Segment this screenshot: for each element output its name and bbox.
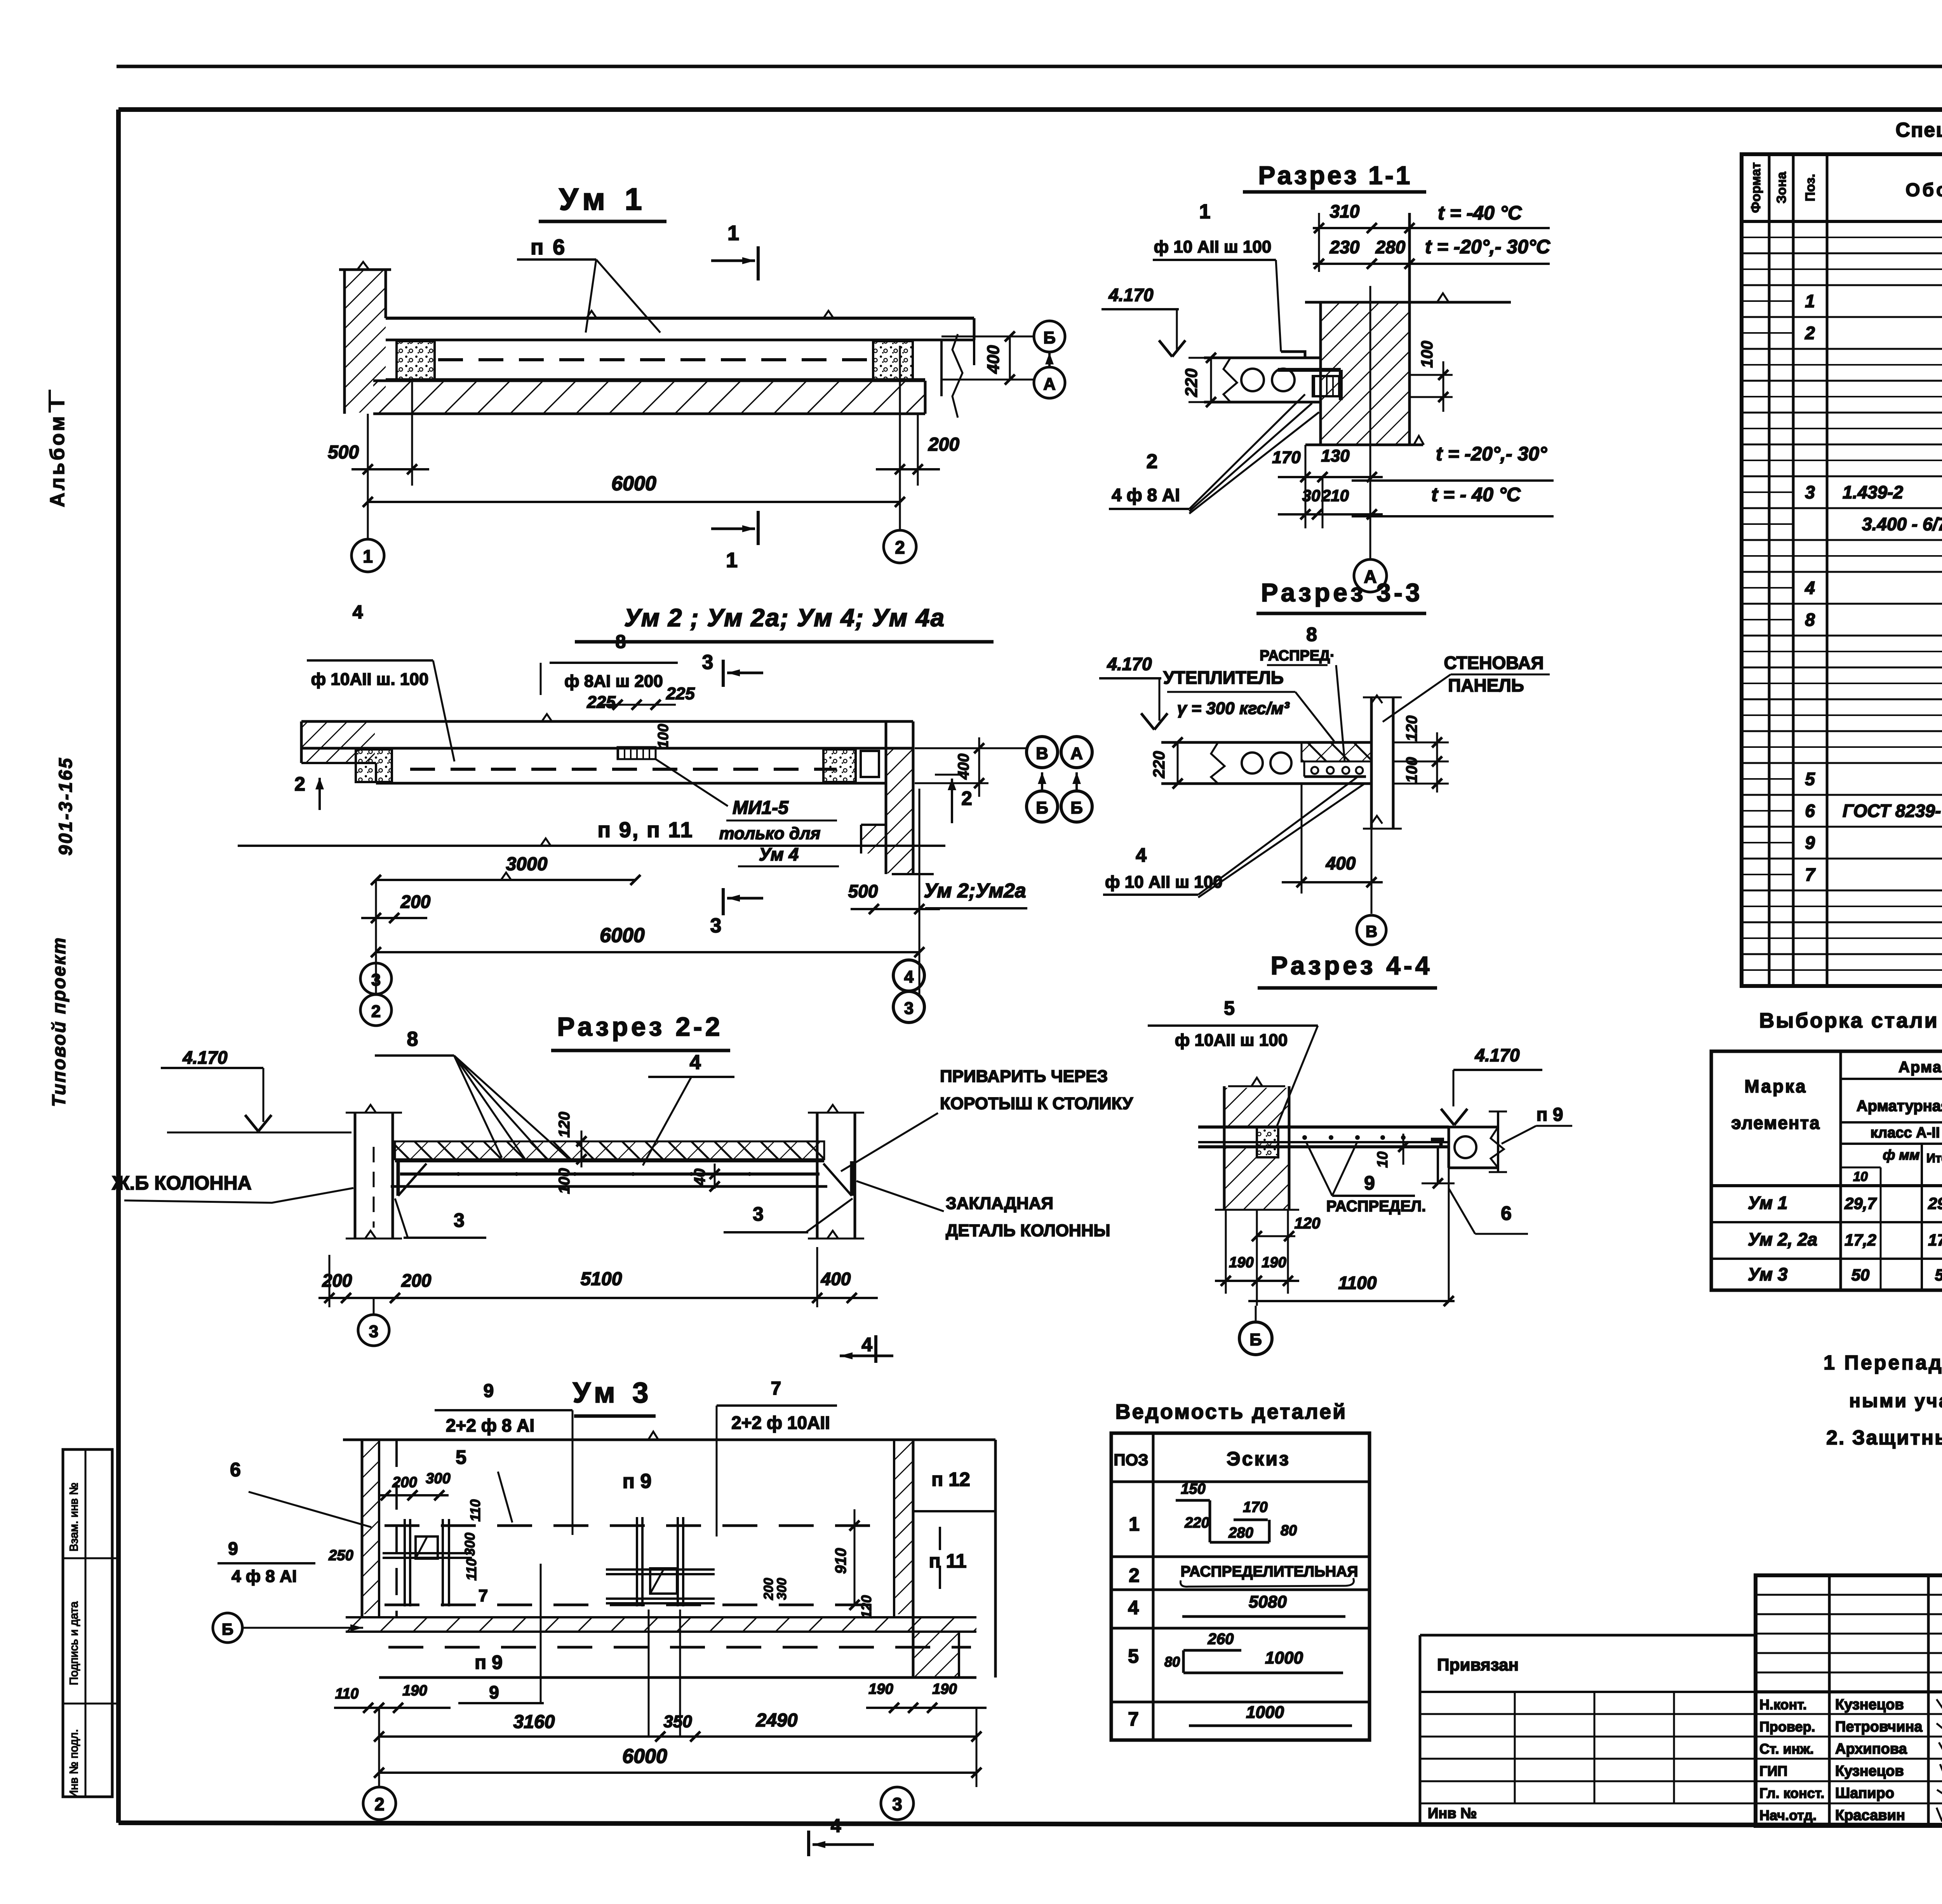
- Ум3 rebar cage middle: [606, 1517, 715, 1606]
- Разрез4-4 small bracket at slab end: [1431, 1139, 1444, 1147]
- Разрез3-3 panel axis and node circle В: [1357, 784, 1386, 945]
- Выборка header texts: [1731, 1059, 1942, 1184]
- svg-text:110: 110: [335, 1686, 359, 1702]
- svg-text:400: 400: [821, 1269, 851, 1289]
- Разрез4-4 level mark 4.170: [1441, 1045, 1542, 1125]
- svg-text:1100: 1100: [1338, 1273, 1377, 1293]
- svg-text:250: 250: [328, 1547, 353, 1564]
- svg-text:220: 220: [1182, 368, 1201, 397]
- Разрез3-3 label УТЕПЛИТЕЛЬ γ=300: [1163, 667, 1334, 741]
- Ум2 right wall and column (hatched): [861, 721, 934, 874]
- Разрез1-1 bottom dims 170 130: [1272, 446, 1383, 482]
- svg-text:Разрез 2-2: Разрез 2-2: [557, 1012, 723, 1042]
- Разрез2-2 label 4 with leader: [643, 1051, 734, 1165]
- svg-text:t = -20°,- 30°: t = -20°,- 30°: [1436, 443, 1547, 465]
- svg-text:5: 5: [1805, 769, 1815, 789]
- svg-text:4: 4: [1128, 1597, 1139, 1618]
- title block signature rows: [1756, 1697, 1942, 1824]
- svg-text:В: В: [1036, 744, 1048, 763]
- svg-text:190: 190: [1262, 1254, 1286, 1271]
- Ум1 dimension 500: [328, 380, 429, 486]
- Разрез2-2 label 3 left: [395, 1198, 486, 1238]
- svg-text:п 9: п 9: [475, 1651, 503, 1673]
- svg-text:110: 110: [463, 1558, 479, 1580]
- svg-text:п 12: п 12: [931, 1469, 970, 1490]
- Разрез3-3 dim 400: [1282, 784, 1383, 894]
- Ум3 label 5 with leader: [456, 1446, 512, 1523]
- Ум3 dims 110 190 bottom-left: [334, 1683, 451, 1713]
- svg-text:Ум 1: Ум 1: [1748, 1193, 1787, 1213]
- title block outer box: [1756, 1575, 1942, 1826]
- svg-text:901-3-165: 901-3-165: [56, 757, 76, 856]
- Разрез2-2 insulation band (cross hatch): [395, 1141, 824, 1159]
- Разрез4-4 label 9 распредел with V leaders: [1306, 1141, 1426, 1215]
- svg-text:1000: 1000: [1246, 1703, 1284, 1722]
- Ум3 axis circle 3: [881, 1787, 914, 1820]
- svg-text:Ум 1: Ум 1: [559, 182, 647, 216]
- svg-text:1: 1: [1129, 1513, 1140, 1535]
- svg-text:7: 7: [771, 1378, 781, 1399]
- svg-text:4: 4: [690, 1051, 701, 1074]
- svg-text:40: 40: [691, 1169, 708, 1186]
- Ум2 title: [575, 604, 994, 642]
- Ум2 axis circles 4/3 right: [893, 960, 924, 1023]
- svg-text:2. Защитный слой бетона при: 2. Защитный слой бетона принят 10 мм.: [1826, 1427, 1942, 1449]
- svg-text:Поз.: Поз.: [1803, 174, 1818, 201]
- Ум1 beam body with dashed axis: [386, 340, 925, 380]
- svg-text:100: 100: [1418, 341, 1436, 368]
- svg-text:Инв №: Инв №: [1428, 1805, 1477, 1822]
- Разрез2-2 bottom dims 200 200 5100 400: [318, 1247, 878, 1307]
- Разрез1-1 dim 230|280 and t=-20-30: [1313, 236, 1550, 269]
- Ум2 dim 225+225 at splice plate: [586, 684, 695, 749]
- svg-text:4.170: 4.170: [1107, 654, 1152, 674]
- svg-text:9: 9: [484, 1381, 494, 1401]
- Ум3 label 9 bottom with leader: [458, 1564, 544, 1703]
- svg-text:МИ1-5: МИ1-5: [733, 798, 789, 818]
- svg-text:1: 1: [1805, 291, 1815, 311]
- Ум3 label 7 2+2ф10АII: [717, 1378, 837, 1536]
- Ум3 leaders to 350 dim: [649, 1610, 680, 1737]
- svg-text:1000: 1000: [1265, 1648, 1303, 1667]
- svg-text:1 Перепады высот между сб.: 1 Перепады высот между сб. плитами и мон…: [1824, 1352, 1942, 1374]
- Ум3 axis circle 2: [363, 1787, 396, 1820]
- Ум3 dim 250 left: [328, 1547, 353, 1564]
- Ум2 level arrows 2 left and right: [294, 773, 972, 823]
- svg-text:п 6: п 6: [531, 235, 567, 259]
- Спецификация row 3 опорный столик ТК1: [1805, 479, 1942, 504]
- Ум2 dim 3000: [371, 854, 640, 885]
- Ведомость row 7 bar 1000: [1128, 1703, 1352, 1730]
- svg-text:п 11: п 11: [929, 1550, 967, 1572]
- svg-text:Подпись и дата: Подпись и дата: [68, 1601, 80, 1685]
- svg-text:50: 50: [1935, 1266, 1942, 1284]
- svg-text:Эскиз: Эскиз: [1227, 1448, 1290, 1470]
- svg-text:ф мм: ф мм: [1883, 1147, 1919, 1163]
- svg-text:80: 80: [1164, 1654, 1180, 1670]
- left margin rotated text Типовой проект: [49, 937, 70, 1107]
- svg-text:4: 4: [904, 967, 914, 986]
- Ум3 dims 190 190 bottom-right: [866, 1681, 987, 1713]
- svg-text:2: 2: [374, 1794, 385, 1814]
- svg-text:500: 500: [328, 442, 359, 463]
- svg-text:2: 2: [371, 1002, 381, 1021]
- svg-text:Привязан: Привязан: [1437, 1655, 1519, 1674]
- Разрез3-3 insulation strip (cross hatch): [1302, 742, 1371, 761]
- svg-text:200: 200: [400, 892, 431, 912]
- Ум1 section mark 1-1 bottom: [711, 511, 758, 572]
- svg-text:9: 9: [489, 1682, 499, 1702]
- Ум2 axis circles 3/2 left: [360, 963, 392, 1026]
- svg-text:170: 170: [1243, 1499, 1267, 1516]
- svg-text:Ведомость деталей: Ведомость деталей: [1115, 1400, 1347, 1423]
- Ум2 node circles В А Б Б: [1027, 737, 1092, 822]
- svg-text:4: 4: [1136, 844, 1147, 866]
- svg-text:310: 310: [1330, 201, 1360, 221]
- svg-text:Типовой проект: Типовой проект: [49, 937, 70, 1107]
- Разрез2-2 right column: [808, 1105, 864, 1239]
- svg-text:3160: 3160: [513, 1712, 555, 1732]
- svg-text:ными участками заполнить пе: ными участками заполнить пенобетоном γ·3…: [1849, 1391, 1942, 1411]
- Ум2 МИ1-5 label with leader: [656, 759, 839, 866]
- svg-text:3: 3: [454, 1209, 465, 1231]
- Ум3 corner hatch bottom right: [913, 1632, 959, 1678]
- svg-text:2+2 ф 10АII: 2+2 ф 10АII: [731, 1413, 830, 1433]
- svg-text:ГОСТ 8239- 72: ГОСТ 8239- 72: [1843, 801, 1942, 821]
- svg-text:100: 100: [556, 1168, 573, 1194]
- svg-text:280: 280: [1375, 237, 1406, 257]
- Разрез2-2 left bearing bracket: [398, 1161, 426, 1196]
- svg-text:Обозначение: Обозначение: [1905, 180, 1942, 200]
- svg-text:80: 80: [1281, 1523, 1297, 1539]
- Выборка стали title: [1759, 1009, 1942, 1032]
- Разрез2-2 section mark 4 right: [840, 1334, 893, 1363]
- Ум1 title: [539, 182, 666, 221]
- svg-text:Марка: Марка: [1744, 1076, 1807, 1096]
- svg-text:Кузнецов: Кузнецов: [1835, 1697, 1904, 1713]
- Разрез 2-2 title: [551, 1012, 730, 1050]
- Разрез3-3 dims 120 100 right: [1393, 716, 1449, 793]
- svg-text:2: 2: [1129, 1564, 1140, 1586]
- svg-text:Б: Б: [1043, 328, 1056, 347]
- Ум2 dim 6000: [371, 789, 924, 995]
- svg-text:2: 2: [294, 773, 305, 795]
- Разрез2-2 rotated dims 120 100 40: [556, 1112, 720, 1194]
- Ум2 dim 200: [361, 880, 431, 995]
- svg-text:400: 400: [984, 345, 1003, 374]
- Ум1 top plate of monolithic section: [386, 311, 974, 340]
- svg-text:17,2: 17,2: [1928, 1231, 1942, 1249]
- svg-text:3: 3: [904, 999, 914, 1018]
- svg-text:1: 1: [1199, 200, 1211, 223]
- svg-text:ПРИВАРИТЬ ЧЕРЕЗ: ПРИВАРИТЬ ЧЕРЕЗ: [940, 1067, 1108, 1086]
- Ум1 node circles Б and А: [1034, 321, 1065, 398]
- note 1 line 1: [1824, 1352, 1942, 1374]
- svg-text:Итого: Итого: [1926, 1151, 1942, 1165]
- svg-text:6000: 6000: [611, 472, 656, 495]
- svg-text:только для: только для: [719, 824, 821, 843]
- left margin rotated text Альбом I: [46, 390, 69, 507]
- svg-text:РАСПРЕДЕЛ.: РАСПРЕДЕЛ.: [1326, 1198, 1426, 1215]
- svg-text:Шапиро: Шапиро: [1835, 1785, 1894, 1801]
- svg-text:8: 8: [407, 1028, 418, 1050]
- Разрез4-4 monolithic slab lines with rebar dots: [1198, 1127, 1449, 1168]
- Разрез1-1 hollow core slab at left: [1204, 358, 1321, 402]
- svg-text:Петровчина: Петровчина: [1835, 1719, 1923, 1735]
- svg-text:10: 10: [1853, 1169, 1868, 1184]
- title block upper mini grid: [1756, 1575, 1942, 1826]
- svg-text:4 ф 8 АI: 4 ф 8 АI: [231, 1567, 297, 1586]
- Разрез1-1 wall column (hatched): [1305, 213, 1511, 445]
- Ведомость row 1 bent bar sketch: [1129, 1481, 1297, 1542]
- svg-text:Арматурные изделия: Арматурные изделия: [1898, 1059, 1942, 1076]
- note 2: [1826, 1427, 1942, 1449]
- left margin stamp boxes (Взам.инв №, Подпись и дата, Инв № подл.): [63, 1449, 118, 1798]
- svg-text:500: 500: [848, 881, 878, 901]
- svg-text:5: 5: [1224, 997, 1235, 1019]
- svg-text:6000: 6000: [600, 924, 645, 947]
- Ум1 dimension 200: [876, 346, 959, 486]
- svg-text:300: 300: [426, 1470, 450, 1487]
- Разрез3-3 hollow core slab: [1161, 742, 1371, 784]
- Разрез2-2 label 3 right: [724, 1198, 853, 1232]
- Спецификация header texts: [1749, 162, 1942, 213]
- svg-text:Б: Б: [1036, 798, 1048, 817]
- svg-text:класс А-II: класс А-II: [1871, 1125, 1940, 1141]
- Ум3 right wall strip hatched: [894, 1440, 913, 1678]
- svg-text:350: 350: [663, 1712, 692, 1731]
- svg-text:3: 3: [702, 651, 713, 674]
- Разрез2-2 level mark 4.170: [161, 1047, 352, 1132]
- Ум1 axis circle 2: [884, 517, 916, 563]
- svg-text:200: 200: [761, 1578, 776, 1601]
- svg-text:Красавин: Красавин: [1835, 1807, 1905, 1824]
- svg-text:Разрез 1-1: Разрез 1-1: [1258, 161, 1412, 190]
- Разрез3-3 label СТЕНОВАЯ ПАНЕЛЬ: [1383, 653, 1550, 722]
- Разрез1-1 bearing detail (thick angle): [1278, 370, 1341, 400]
- svg-text:ГИП: ГИП: [1759, 1763, 1787, 1779]
- Ведомость row 4 bar 5080: [1128, 1592, 1345, 1618]
- svg-text:Разрез 3-3: Разрез 3-3: [1261, 578, 1423, 607]
- Ум2 top slab lines: [301, 714, 913, 748]
- svg-text:6: 6: [1501, 1202, 1512, 1224]
- svg-text:29,7: 29,7: [1844, 1194, 1877, 1212]
- Ум3 plan top edge: [343, 1432, 995, 1440]
- Ум3 label 6 with leader: [230, 1459, 371, 1527]
- svg-text:190: 190: [402, 1683, 427, 1699]
- svg-text:3000: 3000: [506, 854, 548, 874]
- sheet top edge line: [117, 65, 1942, 68]
- Разрез2-2 label ЖБ колонна with leader: [111, 1172, 353, 1203]
- svg-text:4 ф 8 АI: 4 ф 8 АI: [1112, 485, 1180, 505]
- Спецификация data rows text: [1805, 226, 1942, 980]
- Ум2 dim 500 and label Ум2;Ум2а: [848, 880, 1027, 914]
- Ум2 left ledge lines: [238, 721, 945, 846]
- svg-text:Ум 3: Ум 3: [573, 1376, 653, 1409]
- svg-text:1: 1: [363, 546, 373, 566]
- svg-text:ф 8АI ш 200: ф 8АI ш 200: [564, 672, 663, 691]
- Разрез4-4 hollow slab right with circle: [1449, 1111, 1507, 1172]
- svg-text:100: 100: [655, 724, 672, 748]
- svg-text:Инв № подл.: Инв № подл.: [68, 1729, 80, 1799]
- svg-text:190: 190: [868, 1681, 893, 1697]
- Ум3 label 9 4ф8АI left: [218, 1538, 315, 1586]
- Разрез2-2 beam lines: [391, 1161, 827, 1186]
- svg-text:РАСПРЕД·: РАСПРЕД·: [1260, 648, 1335, 664]
- svg-text:1: 1: [726, 549, 738, 572]
- Ум1 axis circle 1: [352, 517, 384, 572]
- Спецификация row 3.400-6/76 изделие закладное МИ1-5: [1862, 510, 1942, 537]
- svg-text:3: 3: [1805, 482, 1815, 502]
- svg-text:5080: 5080: [1249, 1592, 1287, 1611]
- svg-text:5: 5: [456, 1446, 466, 1468]
- Разрез 4-4 title: [1258, 951, 1437, 988]
- Разрез1-1 wall mid dim 100 lines: [1410, 341, 1453, 412]
- Ум1 dimension 6000: [363, 472, 905, 517]
- svg-text:Ум 4: Ум 4: [759, 844, 799, 864]
- Ум2 rebar label 8 ф8АI ш200: [541, 632, 678, 695]
- svg-text:7: 7: [479, 1586, 488, 1605]
- Разрез2-2 axis circle 3 bottom: [358, 1298, 389, 1346]
- svg-text:7: 7: [1805, 864, 1816, 885]
- svg-text:В: В: [1366, 922, 1377, 941]
- svg-text:10: 10: [1375, 1151, 1391, 1168]
- Разрез2-2 note закладная деталь колонны: [856, 1181, 1110, 1240]
- Спецификация table outer and columns: [1742, 154, 1942, 986]
- svg-text:8: 8: [1805, 610, 1815, 630]
- svg-text:9: 9: [228, 1538, 238, 1559]
- Разрез1-1 top dim 310 and t=-40: [1313, 201, 1550, 272]
- svg-text:Формат: Формат: [1749, 162, 1763, 213]
- svg-text:4: 4: [353, 602, 363, 623]
- svg-text:225: 225: [666, 684, 695, 703]
- svg-text:3: 3: [892, 1794, 902, 1814]
- svg-text:120: 120: [1295, 1215, 1321, 1232]
- svg-text:Нач.отд.: Нач.отд.: [1759, 1807, 1817, 1823]
- svg-text:Ум 2;Ум2а: Ум 2;Ум2а: [924, 880, 1026, 902]
- svg-text:150: 150: [1181, 1481, 1205, 1497]
- Выборка data rows: [1748, 1193, 1942, 1284]
- svg-text:300: 300: [462, 1533, 478, 1556]
- Разрез4-4 dim 120: [1252, 1215, 1320, 1241]
- Ум1 right end break lines: [941, 334, 974, 418]
- svg-text:17,2: 17,2: [1845, 1231, 1876, 1249]
- Ум3 left wall strip hatched: [362, 1440, 397, 1617]
- Разрез1-1 level mark 4.170: [1102, 285, 1185, 357]
- Разрез4-4 dims 190 190: [1215, 1210, 1299, 1306]
- svg-text:200: 200: [401, 1270, 432, 1291]
- svg-text:5100: 5100: [581, 1269, 622, 1289]
- привязан extension block: [1420, 1635, 1756, 1823]
- svg-text:п 9: п 9: [623, 1470, 652, 1493]
- svg-text:9: 9: [1805, 833, 1815, 853]
- svg-text:Гл. конст.: Гл. конст.: [1759, 1785, 1824, 1801]
- svg-text:Разрез 4-4: Разрез 4-4: [1270, 951, 1432, 980]
- svg-text:6: 6: [1805, 801, 1815, 821]
- svg-text:200: 200: [928, 434, 959, 455]
- svg-text:8: 8: [1306, 624, 1317, 645]
- svg-text:2: 2: [1805, 323, 1815, 343]
- Ум2 section mark 3 bottom: [710, 888, 763, 937]
- svg-text:t = -40 °C: t = -40 °C: [1438, 202, 1522, 224]
- Разрез4-4 vertical dim at step: [1422, 1147, 1455, 1188]
- svg-text:8: 8: [616, 632, 626, 652]
- Ум1 vertical dim 400 at right: [941, 331, 1033, 385]
- svg-text:120: 120: [556, 1112, 573, 1138]
- Ум3 rebar cage left: [383, 1519, 472, 1606]
- Ум2 section mark 3 top: [702, 651, 763, 687]
- Разрез1-1 label 1 ф10АII ш100: [1153, 200, 1305, 358]
- svg-text:190: 190: [1229, 1254, 1253, 1271]
- Ведомость row 2 распределительная: [1129, 1563, 1358, 1587]
- Ум1 right bearing pad (stippled): [873, 341, 913, 380]
- svg-text:200: 200: [392, 1474, 417, 1491]
- svg-text:7: 7: [1128, 1708, 1139, 1730]
- Разрез4-4 label 5 ф10АII ш100: [1148, 997, 1318, 1126]
- svg-text:3: 3: [369, 1322, 378, 1341]
- svg-text:280: 280: [1228, 1525, 1253, 1541]
- Разрез4-4 label п9 with leader: [1502, 1104, 1572, 1144]
- svg-text:4.170: 4.170: [182, 1047, 228, 1068]
- Ум1 bottom floor band (hatched): [373, 381, 925, 414]
- svg-text:ПОЗ: ПОЗ: [1114, 1451, 1148, 1469]
- svg-text:120: 120: [1403, 716, 1420, 742]
- svg-text:2: 2: [961, 787, 972, 809]
- Ум3 section mark 4 bottom: [809, 1816, 874, 1856]
- svg-text:29,7: 29,7: [1928, 1194, 1942, 1212]
- Ум3 label п9 top: [623, 1470, 652, 1493]
- svg-text:п 9, п 11: п 9, п 11: [597, 817, 693, 842]
- svg-text:220: 220: [1150, 751, 1168, 779]
- Разрез3-3 wall panel verticals: [1363, 695, 1402, 829]
- Разрез2-2 left column: [346, 1105, 402, 1239]
- Ум2 beam body and dashed axis: [376, 763, 886, 783]
- svg-text:А: А: [1043, 375, 1056, 394]
- Разрез3-3 dim 220 left: [1150, 737, 1183, 789]
- Разрез 3-3 title: [1256, 578, 1426, 613]
- Ум3 title: [573, 1376, 656, 1416]
- Разрез4-4 node circle Б below: [1239, 1306, 1272, 1355]
- Ум3 dims 910 120 right: [832, 1509, 874, 1618]
- Ведомость row 5 bent bar 260/1000: [1128, 1631, 1343, 1673]
- svg-text:СТЕНОВАЯ: СТЕНОВАЯ: [1444, 653, 1544, 673]
- svg-text:Н.конт.: Н.конт.: [1759, 1697, 1807, 1712]
- svg-text:6000: 6000: [622, 1745, 667, 1768]
- Ум2 left wall corner (hatched): [301, 721, 376, 763]
- svg-text:Альбом I: Альбом I: [46, 398, 69, 507]
- svg-text:элемента: элемента: [1731, 1113, 1820, 1133]
- svg-text:2: 2: [895, 537, 905, 557]
- Ум3 dims 3160 350 2490: [374, 1710, 981, 1742]
- Спецификация row 6 ГОСТ 8239-72 I22: [1805, 801, 1942, 821]
- Разрез1-1 label 2 / 4ф8АI with leaders: [1109, 394, 1319, 514]
- Разрез3-3 level mark 4.170: [1099, 654, 1168, 730]
- svg-text:УТЕПЛИТЕЛЬ: УТЕПЛИТЕЛЬ: [1163, 667, 1284, 688]
- svg-text:ДЕТАЛЬ КОЛОННЫ: ДЕТАЛЬ КОЛОННЫ: [946, 1221, 1110, 1240]
- svg-text:260: 260: [1208, 1631, 1234, 1648]
- svg-text:120: 120: [858, 1595, 874, 1618]
- svg-text:130: 130: [1321, 446, 1350, 465]
- svg-text:2: 2: [1147, 450, 1158, 473]
- svg-text:Кузнецов: Кузнецов: [1835, 1763, 1904, 1779]
- Разрез 1-1 title: [1243, 161, 1426, 192]
- svg-text:РАСПРЕДЕЛИТЕЛЬНАЯ: РАСПРЕДЕЛИТЕЛЬНАЯ: [1181, 1563, 1358, 1580]
- Ум2 rebar label 4 ф10АII ш.100: [307, 602, 454, 761]
- Ум1 slab label п6 with leaders: [517, 235, 660, 333]
- svg-text:3: 3: [371, 970, 381, 989]
- svg-text:220: 220: [1184, 1515, 1209, 1531]
- Ум2 right embed plate small box: [861, 751, 879, 777]
